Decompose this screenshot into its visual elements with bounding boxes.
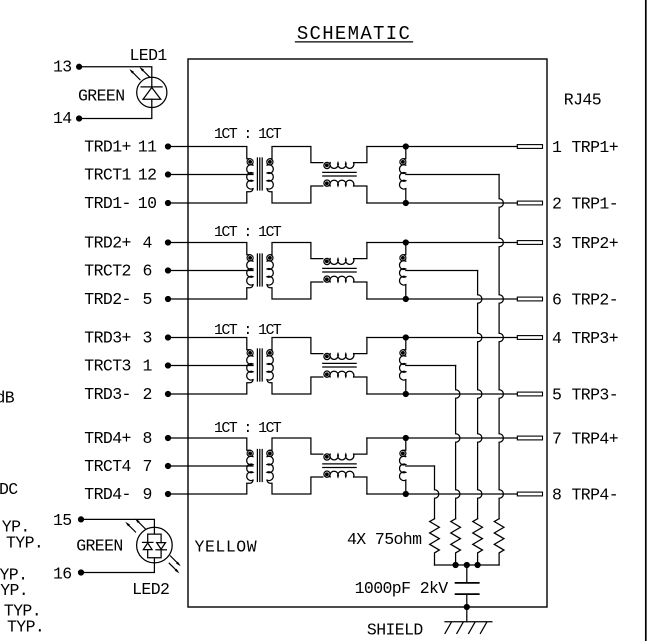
pin 2 lead (TRP1-) <box>517 201 542 205</box>
svg-text:TRD1-: TRD1- <box>84 194 131 213</box>
wire A3 center tap to resistor R3 (with wire hops) <box>406 366 460 519</box>
transformer T2 secondary phase dot <box>269 257 272 260</box>
junction node TRP3+ <box>403 335 408 340</box>
wire pin13 to LED1 anode <box>77 64 152 77</box>
LED LED1 (green) <box>137 77 167 107</box>
svg-text:8: 8 <box>552 486 561 505</box>
pin 5 label TRP3- <box>552 386 618 405</box>
transformer T4 core <box>257 450 262 482</box>
wire T3 secondary top to choke L3 <box>270 338 323 354</box>
wire pin15 to LED2 top <box>79 517 155 527</box>
svg-text:TRCT1: TRCT1 <box>84 166 131 185</box>
svg-text:7: 7 <box>142 457 151 476</box>
svg-text:9: 9 <box>142 485 151 504</box>
junction node TRP1+ <box>403 144 408 149</box>
svg-text:YP.: YP. <box>0 581 28 600</box>
svg-text:TRD3-: TRD3- <box>84 385 131 404</box>
svg-text:TRD4+: TRD4+ <box>84 429 131 448</box>
junction node TRP1- <box>403 201 408 206</box>
common-mode choke L3 top winding <box>324 353 354 359</box>
pin 5 lead (TRP3-) <box>517 392 542 396</box>
pin 4 lead (TRP3+) <box>517 336 542 340</box>
pin 6 label TRP2- <box>552 291 618 310</box>
svg-text:1000pF 2kV: 1000pF 2kV <box>355 579 449 598</box>
wire A1 center tap to resistor R1 (with wire hops) <box>406 175 504 519</box>
svg-text:TRP2+: TRP2+ <box>572 234 619 253</box>
transformer T3 core <box>257 349 262 381</box>
svg-text:16: 16 <box>53 564 72 583</box>
pin 3 label TRP2+ <box>552 234 618 253</box>
transformer T2 primary phase dot <box>249 257 252 260</box>
wire choke L1 bottom out to node TRP1- <box>354 186 367 203</box>
svg-text:TRCT2: TRCT2 <box>84 262 131 281</box>
pin 3 lead (TRP2+) <box>517 241 542 245</box>
wire TRD3+ + transformer T3 primary winding + wire TRD3- <box>166 335 254 397</box>
svg-text:1CT : 1CT: 1CT : 1CT <box>214 126 282 143</box>
cropped page text fragment YP. <box>0 565 27 584</box>
svg-text:10: 10 <box>138 194 157 213</box>
resistor R4 75ohm <box>430 519 440 565</box>
net label TRCT3 pin 1 <box>84 357 152 376</box>
autotransformer (termination) winding A4 <box>400 438 406 494</box>
label GREEN (LED1) <box>78 86 125 105</box>
resistor R3 75ohm <box>451 519 461 565</box>
label 1CT : 1CT (transformer T3 ratio) <box>214 322 282 339</box>
svg-text:LED1: LED1 <box>130 46 168 65</box>
net label TRD3- pin 2 <box>84 385 151 404</box>
wire T3 secondary bottom to choke L3 <box>267 377 323 394</box>
pin 1 label TRP1+ <box>552 138 618 157</box>
wire choke L2 top out to node TRP2+ <box>354 243 367 259</box>
svg-text:15: 15 <box>53 511 72 530</box>
svg-text:TRP1+: TRP1+ <box>572 138 619 157</box>
wire choke L2 bottom out to node TRP2- <box>354 282 367 299</box>
label 4X 75ohm <box>347 530 422 549</box>
net label TRD1- pin 10 <box>84 194 156 213</box>
svg-text:1CT : 1CT: 1CT : 1CT <box>214 224 282 241</box>
LED LED1 label <box>130 46 168 65</box>
label 1CT : 1CT (transformer T1 ratio) <box>214 126 282 143</box>
wire net TRP1+ row to pin 1 <box>367 146 517 148</box>
svg-text:TRD2-: TRD2- <box>84 290 131 309</box>
pin 7 label TRP4+ <box>552 430 618 449</box>
wire TRD4+ + transformer T4 primary winding + wire TRD4- <box>166 436 254 497</box>
wire net TRP4+ row to pin 7 <box>367 437 517 439</box>
pin 13 label <box>53 57 72 76</box>
svg-text:TRP2-: TRP2- <box>572 291 619 310</box>
wire net TRP4- row to pin 8 <box>367 493 517 495</box>
svg-text:5: 5 <box>552 386 561 405</box>
title SCHEMATIC <box>296 23 413 45</box>
svg-text:13: 13 <box>53 57 72 76</box>
LED1 light emission arrows <box>129 67 150 80</box>
svg-text:5: 5 <box>142 290 151 309</box>
label YELLOW (LED2) <box>195 537 258 556</box>
svg-text:1CT : 1CT: 1CT : 1CT <box>214 420 282 437</box>
transformer T3 secondary winding <box>267 350 273 380</box>
svg-text:1CT : 1CT: 1CT : 1CT <box>214 322 282 339</box>
junction node TRP4- <box>403 492 408 497</box>
wire TRD2+ + transformer T2 primary winding + wire TRD2- <box>166 240 254 302</box>
svg-text:TRCT4: TRCT4 <box>84 457 131 476</box>
wire choke L1 top out to node TRP1+ <box>354 147 367 163</box>
common-mode choke L1 core <box>323 172 356 176</box>
svg-text:4: 4 <box>552 329 562 348</box>
wire TRCT3 center tap <box>166 363 254 368</box>
capacitor C1 1000pF 2kV <box>456 565 479 607</box>
common-mode choke L3 bottom winding <box>324 371 354 377</box>
svg-text:11: 11 <box>138 138 157 157</box>
common-mode choke L2 top winding <box>324 258 354 264</box>
wire resistor common bus <box>435 563 500 568</box>
transformer T2 core <box>257 254 262 286</box>
svg-text:dB: dB <box>0 388 15 407</box>
resistor R1 75ohm <box>494 519 504 565</box>
cropped page text fragment YP. <box>0 581 28 600</box>
pin 6 lead (TRP2-) <box>517 297 542 301</box>
common-mode choke L4 bottom winding <box>324 471 354 477</box>
svg-text:4X 75ohm: 4X 75ohm <box>347 530 422 549</box>
common-mode choke L4 top winding <box>324 454 354 460</box>
autotransformer (termination) winding A1 <box>400 147 406 204</box>
wire to shield ground <box>466 607 468 622</box>
wire T4 secondary bottom to choke L4 <box>267 477 323 494</box>
common-mode choke L1 bottom winding <box>324 180 354 186</box>
common-mode choke L4 core <box>323 464 356 468</box>
resistor R2 75ohm <box>473 519 483 565</box>
svg-text:7: 7 <box>552 430 561 449</box>
svg-text:TRP1-: TRP1- <box>572 195 619 214</box>
cropped page text fragment TYP. <box>7 617 44 636</box>
wire TRD1+ + transformer T1 primary winding + wire TRD1- <box>166 144 254 206</box>
junction node TRP4+ <box>403 436 408 441</box>
common-mode choke L2 core <box>323 268 356 272</box>
svg-text:TRD3+: TRD3+ <box>84 329 131 348</box>
pin 16 label <box>53 564 72 583</box>
wire T4 secondary top to choke L4 <box>270 438 323 454</box>
svg-text:14: 14 <box>53 109 72 128</box>
transformer T2 secondary winding <box>267 255 273 285</box>
wire A4 center tap to resistor R4 (with wire hops) <box>406 466 439 519</box>
svg-text:12: 12 <box>138 166 157 185</box>
wire T1 secondary top to choke L1 <box>270 147 323 163</box>
svg-text:LED2: LED2 <box>132 580 169 599</box>
junction node TRP2+ <box>403 240 408 245</box>
wire choke L4 top out to node TRP4+ <box>354 438 367 454</box>
wire TRCT4 center tap <box>166 464 254 469</box>
wire net TRP3+ row to pin 4 <box>367 337 517 339</box>
svg-text:3: 3 <box>142 329 151 348</box>
common-mode choke L3 core <box>323 363 356 367</box>
svg-text:2: 2 <box>142 385 151 404</box>
svg-text:SHIELD: SHIELD <box>367 621 424 640</box>
cropped page text fragment YP. <box>2 518 30 537</box>
wire net TRP1- row to pin 2 <box>367 202 517 204</box>
wire choke L3 top out to node TRP3+ <box>354 338 367 354</box>
net label TRD4+ pin 8 <box>84 429 151 448</box>
wire A2 center tap to resistor R2 (with wire hops) <box>406 271 482 519</box>
pin 2 label TRP1- <box>552 195 618 214</box>
wire TRCT1 center tap <box>166 172 254 177</box>
net label TRD3+ pin 3 <box>84 329 151 348</box>
page frame right border <box>645 0 647 641</box>
pin 7 lead (TRP4+) <box>517 436 542 440</box>
svg-text:TRD4-: TRD4- <box>84 485 131 504</box>
svg-text:RJ45: RJ45 <box>564 91 601 110</box>
svg-text:1: 1 <box>142 357 152 376</box>
wire choke L3 bottom out to node TRP3- <box>354 377 367 394</box>
transformer T1 secondary winding <box>267 159 273 189</box>
LED LED2 (green/yellow bi-color) <box>137 527 173 563</box>
svg-text:TRP3+: TRP3+ <box>572 329 619 348</box>
pin 4 label TRP3+ <box>552 329 618 348</box>
wire net TRP2+ row to pin 3 <box>367 242 517 244</box>
pin 8 lead (TRP4-) <box>517 492 542 496</box>
transformer T1 primary phase dot <box>249 161 252 164</box>
svg-text:8: 8 <box>142 429 151 448</box>
wire TRCT2 center tap <box>166 268 254 273</box>
wire net TRP3- row to pin 5 <box>367 393 517 395</box>
chassis ground symbol (shield) <box>445 622 492 634</box>
label 1000pF 2kV <box>355 579 449 598</box>
wire T1 secondary bottom to choke L1 <box>267 186 323 203</box>
module outline box U1 <box>188 59 547 607</box>
pin 14 label <box>53 109 72 128</box>
net label TRD2+ pin 4 <box>84 234 152 253</box>
label 1CT : 1CT (transformer T2 ratio) <box>214 224 282 241</box>
svg-text:TRD1+: TRD1+ <box>84 138 131 157</box>
junction shield node on module boundary <box>464 605 469 610</box>
junction node TRP3- <box>403 392 408 397</box>
wire LED1 cathode to pin 14 <box>77 108 152 122</box>
autotransformer (termination) winding A3 <box>400 338 406 395</box>
svg-text:GREEN: GREEN <box>76 537 123 556</box>
svg-text:6: 6 <box>552 291 561 310</box>
svg-text:TRP3-: TRP3- <box>572 386 619 405</box>
net label TRD4- pin 9 <box>84 485 151 504</box>
autotransformer (termination) winding A2 <box>400 243 406 300</box>
net label TRD1+ pin 11 <box>84 138 157 157</box>
net label TRD2- pin 5 <box>84 290 151 309</box>
transformer T4 secondary phase dot <box>269 452 272 455</box>
pin 15 label <box>53 511 72 530</box>
cropped page text fragment TYP. <box>4 601 41 620</box>
label 1CT : 1CT (transformer T4 ratio) <box>214 420 282 437</box>
transformer T3 secondary phase dot <box>269 352 272 355</box>
LED2 light emission arrows <box>125 519 180 574</box>
cropped page text fragment dB <box>0 388 15 407</box>
cropped page text fragment DC <box>0 480 18 499</box>
svg-text:2: 2 <box>552 195 561 214</box>
label SHIELD <box>367 621 424 640</box>
svg-text:4: 4 <box>142 234 152 253</box>
net label TRCT2 pin 6 <box>84 262 151 281</box>
transformer T3 primary phase dot <box>249 352 252 355</box>
label GREEN (LED2) <box>76 537 123 556</box>
transformer T4 secondary winding <box>267 450 273 480</box>
svg-text:TRP4-: TRP4- <box>572 486 619 505</box>
wire T2 secondary top to choke L2 <box>270 243 323 259</box>
LED LED2 label <box>132 580 169 599</box>
pin 8 label TRP4- <box>552 486 618 505</box>
net label TRCT1 pin 12 <box>84 166 156 185</box>
svg-text:TRCT3: TRCT3 <box>84 357 131 376</box>
wire T2 secondary bottom to choke L2 <box>267 282 323 299</box>
pin 1 lead (TRP1+) <box>517 145 542 149</box>
svg-text:TRD2+: TRD2+ <box>84 234 131 253</box>
svg-text:YELLOW: YELLOW <box>195 537 258 556</box>
svg-text:TYP.: TYP. <box>7 617 44 636</box>
common-mode choke L2 bottom winding <box>324 276 354 282</box>
junction node TRP2- <box>403 297 408 302</box>
svg-text:TYP.: TYP. <box>6 534 43 553</box>
wire net TRP2- row to pin 6 <box>367 298 517 300</box>
transformer T4 primary phase dot <box>249 452 252 455</box>
wire LED2 bottom to pin 16 <box>79 563 155 575</box>
svg-text:TRP4+: TRP4+ <box>572 430 619 449</box>
svg-text:GREEN: GREEN <box>78 86 125 105</box>
transformer T1 core <box>257 158 262 190</box>
transformer T1 secondary phase dot <box>269 161 272 164</box>
svg-text:6: 6 <box>142 262 151 281</box>
svg-text:1: 1 <box>552 138 562 157</box>
net label TRCT4 pin 7 <box>84 457 151 476</box>
common-mode choke L1 top winding <box>324 162 354 168</box>
svg-text:DC: DC <box>0 480 18 499</box>
svg-text:3: 3 <box>552 234 561 253</box>
cropped page text fragment TYP. <box>6 534 43 553</box>
wire choke L4 bottom out to node TRP4- <box>354 477 367 494</box>
label RJ45 <box>564 91 601 110</box>
